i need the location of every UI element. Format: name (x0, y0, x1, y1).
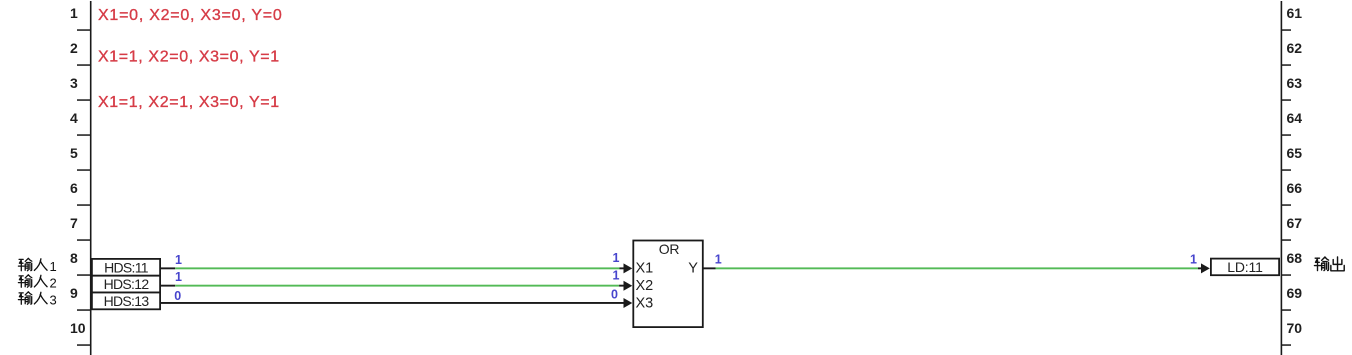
pin stub OR Y output (703, 267, 716, 269)
svg-text:1: 1 (70, 5, 78, 21)
svg-text:X1=1, X2=1, X3=0, Y=1: X1=1, X2=1, X3=0, Y=1 (98, 94, 280, 111)
svg-text:1: 1 (175, 253, 182, 267)
arrow into OR X1 (624, 263, 633, 273)
svg-text:X1=0, X2=0, X3=0, Y=0: X1=0, X2=0, X3=0, Y=0 (98, 7, 282, 24)
wire HDS:11 to OR X1 (state 1, green) (175, 267, 619, 269)
left power rail (90, 1, 92, 355)
right rail tick 67 (1282, 239, 1291, 241)
right rail tick 68 (1282, 274, 1291, 276)
svg-text:Y: Y (688, 261, 698, 277)
right power rail (1281, 1, 1283, 355)
label 输入2 (Input 2) (18, 275, 56, 291)
arrow into OR X3 (624, 298, 633, 308)
svg-text:65: 65 (1287, 145, 1303, 161)
svg-text:2: 2 (70, 40, 78, 56)
input block HDS:13 (91, 292, 161, 311)
svg-text:69: 69 (1287, 285, 1303, 301)
label 输出 (Output) (1314, 257, 1344, 271)
svg-text:HDS:12: HDS:12 (104, 276, 150, 292)
input block HDS:11 (91, 258, 161, 277)
right rail tick 63 (1282, 99, 1291, 101)
svg-text:OR: OR (659, 241, 680, 257)
svg-text:5: 5 (70, 145, 78, 161)
wire stub into X1 arrow (620, 267, 625, 269)
left rail tick 1 (77, 29, 90, 31)
left rail tick 10 (77, 344, 90, 346)
output block LD:11 (1210, 258, 1280, 276)
svg-text:X2: X2 (636, 278, 654, 294)
svg-text:1: 1 (613, 251, 620, 265)
right rail tick 70 (1282, 344, 1291, 346)
svg-text:X1: X1 (636, 261, 654, 277)
svg-text:X1=1, X2=0, X3=0, Y=1: X1=1, X2=0, X3=0, Y=1 (98, 49, 280, 66)
svg-text:4: 4 (70, 110, 78, 126)
svg-text:0: 0 (174, 289, 181, 303)
svg-text:67: 67 (1287, 215, 1303, 231)
left rail tick 6 (77, 204, 90, 206)
svg-text:62: 62 (1287, 40, 1303, 56)
wire stub into X2 arrow (619, 285, 624, 287)
svg-text:9: 9 (70, 285, 78, 301)
svg-text:HDS:11: HDS:11 (104, 259, 149, 275)
svg-text:1: 1 (50, 259, 57, 274)
svg-text:1: 1 (715, 253, 722, 267)
input block HDS:12 (91, 275, 161, 294)
svg-text:X3: X3 (636, 295, 654, 311)
OR gate block U1 (633, 241, 703, 328)
svg-text:61: 61 (1287, 5, 1303, 21)
right rail tick 65 (1282, 169, 1291, 171)
svg-text:1: 1 (1190, 252, 1197, 266)
svg-text:7: 7 (70, 215, 78, 231)
left rail tick 3 (77, 99, 90, 101)
arrow into OR X2 (624, 281, 633, 291)
svg-text:3: 3 (50, 292, 57, 307)
label 输入3 (Input 3) (18, 292, 56, 308)
svg-text:3: 3 (70, 75, 78, 91)
svg-text:0: 0 (611, 287, 618, 301)
left rail tick 7 (77, 239, 90, 241)
svg-text:LD:11: LD:11 (1227, 259, 1263, 275)
wire HDS:13 to OR X3 (state 0, black) (161, 302, 624, 304)
left rail tick 4 (77, 134, 90, 136)
svg-text:HDS:13: HDS:13 (104, 293, 150, 309)
svg-text:70: 70 (1287, 320, 1303, 336)
right rail tick 66 (1282, 204, 1291, 206)
arrow into LD:11 (1201, 263, 1210, 273)
wire HDS:12 to OR X2 (state 1, green) (175, 285, 619, 287)
left rail tick 8 (77, 274, 90, 276)
svg-text:1: 1 (175, 270, 182, 284)
right rail tick 62 (1282, 64, 1291, 66)
svg-text:10: 10 (70, 320, 86, 336)
svg-text:1: 1 (613, 269, 620, 283)
wire stub into LD arrow (1198, 267, 1202, 269)
svg-text:64: 64 (1287, 110, 1303, 126)
right rail tick 64 (1282, 134, 1291, 136)
left rail tick 5 (77, 169, 90, 171)
svg-text:66: 66 (1287, 180, 1303, 196)
left rail tick 2 (77, 64, 90, 66)
pin stub HDS:11 output (161, 267, 175, 269)
svg-text:2: 2 (50, 275, 57, 290)
svg-text:63: 63 (1287, 75, 1303, 91)
pin stub HDS:12 output (161, 285, 175, 287)
svg-text:8: 8 (70, 250, 78, 266)
right rail tick 69 (1282, 309, 1291, 311)
right rail tick 61 (1282, 29, 1291, 31)
wire OR Y to LD:11 (state 1, green) (716, 267, 1199, 269)
svg-text:6: 6 (70, 180, 78, 196)
svg-text:68: 68 (1287, 250, 1303, 266)
left rail tick 9 (77, 309, 90, 311)
label 输入1 (Input 1) (18, 258, 56, 274)
